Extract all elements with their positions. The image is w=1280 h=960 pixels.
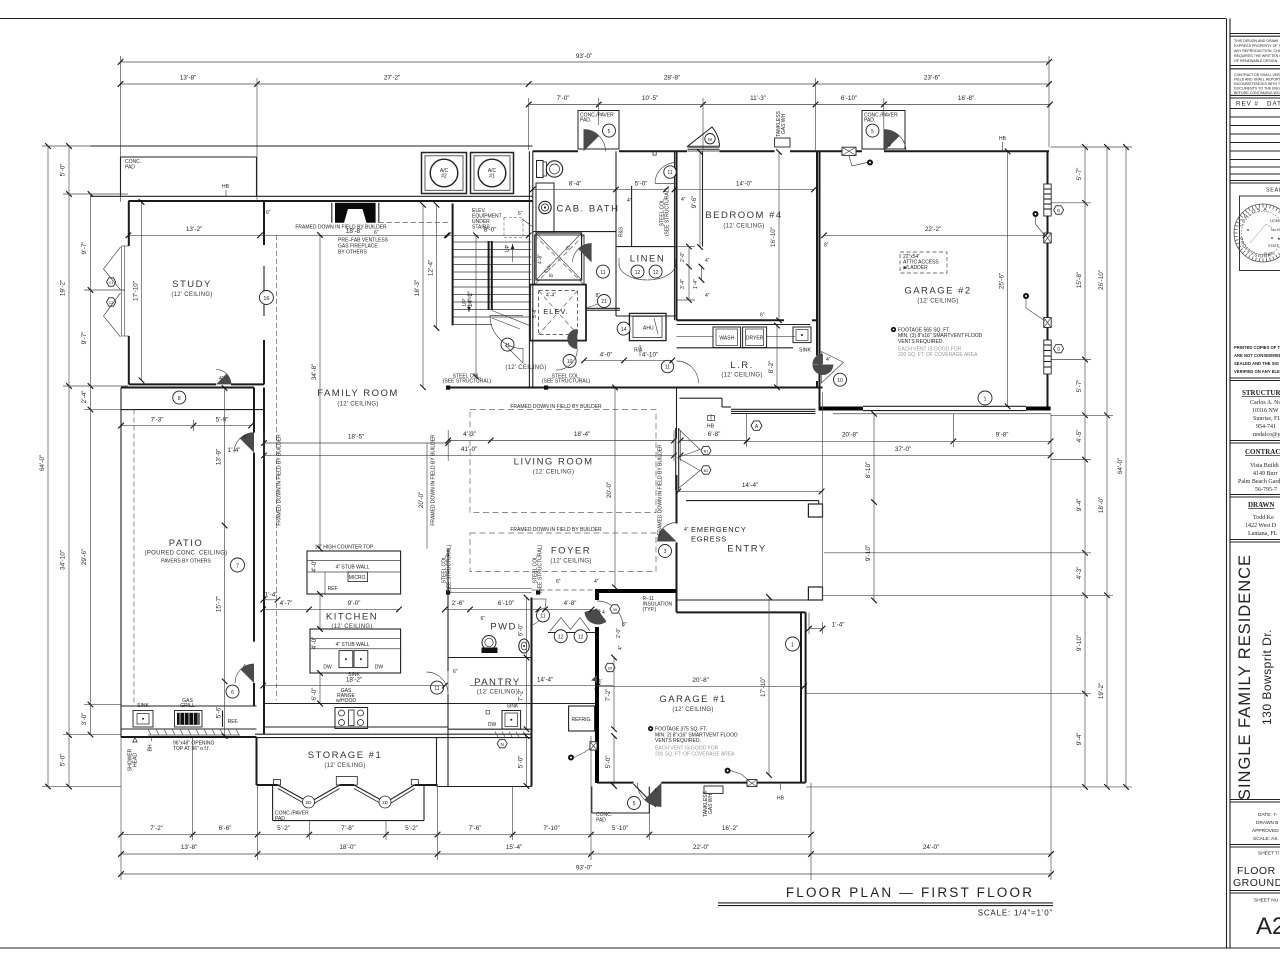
svg-text:PWD: PWD	[490, 622, 517, 633]
joint wall between wings	[529, 151, 532, 201]
96x48 opening note	[173, 741, 215, 753]
svg-text:18’-2”: 18’-2”	[346, 676, 362, 683]
svg-text:8’-10”: 8’-10”	[865, 462, 872, 478]
wc fixtures dims	[619, 187, 686, 237]
svg-text:10’-5”: 10’-5”	[642, 95, 658, 102]
svg-text:DW: DW	[323, 665, 332, 671]
left dim col 3	[81, 194, 91, 735]
vertical dims patio 13'-9" 15'-7" 5'-6"	[216, 388, 241, 736]
svg-text:6”: 6”	[518, 211, 523, 217]
svg-text:VERIFIED ON ANY ELE: VERIFIED ON ANY ELE	[1234, 369, 1280, 374]
svg-text:6”: 6”	[374, 230, 379, 236]
garage1 south wall	[597, 782, 806, 784]
svg-text:1: 1	[984, 396, 987, 402]
svg-text:9’-10”: 9’-10”	[1076, 635, 1083, 651]
svg-text:3’-0”: 3’-0”	[81, 713, 88, 726]
svg-text:HB: HB	[777, 796, 785, 802]
storage bay window 2	[354, 785, 415, 805]
svg-text:10: 10	[567, 359, 573, 365]
svg-text:GAS WH: GAS WH	[708, 793, 714, 814]
svg-text:SCALE: 1/4”=1’0”: SCALE: 1/4”=1’0”	[978, 909, 1053, 918]
svg-text:4’-10”: 4’-10”	[642, 351, 658, 358]
svg-text:2’-4”: 2’-4”	[81, 391, 88, 404]
svg-text:14: 14	[621, 327, 627, 333]
window hexagon C2	[107, 298, 116, 306]
garage1 east wall (double)	[801, 612, 806, 782]
sheet top border line	[0, 18, 1226, 20]
svg-text:1422 West D: 1422 West D	[1245, 523, 1277, 529]
right dim col 64'-0"	[1117, 147, 1126, 787]
svg-text:N: N	[501, 742, 504, 747]
storage front conc paver pad	[273, 785, 424, 822]
svg-text:CONTRAC: CONTRAC	[1245, 448, 1280, 456]
room label GARAGE #2	[904, 286, 971, 305]
svg-text:17’-10”: 17’-10”	[760, 677, 767, 697]
bottom dim row 1	[121, 825, 811, 835]
svg-text:7’-2”: 7’-2”	[518, 689, 525, 702]
svg-text:(TYP.): (TYP.)	[643, 607, 657, 613]
svg-text:11: 11	[665, 365, 670, 371]
svg-text:5’-9”: 5’-9”	[216, 416, 229, 423]
svg-text:FRAMED DOWN IN FIELD BY BUILDE: FRAMED DOWN IN FIELD BY BUILDER	[510, 404, 602, 410]
svg-text:18’-8”: 18’-8”	[346, 228, 362, 235]
svg-text:4”: 4”	[684, 527, 689, 533]
svg-text:w/HOOD: w/HOOD	[336, 698, 356, 704]
svg-text:L.R.: L.R.	[730, 360, 753, 371]
svg-text:4” STUB WALL: 4” STUB WALL	[336, 565, 370, 571]
svg-text:19’-2”: 19’-2”	[60, 280, 67, 296]
svg-text:HB: HB	[222, 184, 230, 190]
storage north wall (double)	[255, 734, 532, 737]
svg-text:BH: BH	[148, 744, 154, 751]
left wing top wall	[128, 200, 532, 202]
svg-text:(12’ CEILING): (12’ CEILING)	[171, 292, 212, 298]
svg-text:4: 4	[602, 610, 605, 616]
dim row cab bath / wc / bedroom4	[533, 180, 814, 189]
svg-text:SINK: SINK	[799, 348, 811, 354]
svg-text:EMERGENCY: EMERGENCY	[691, 525, 747, 534]
svg-text:(12’ CEILING): (12’ CEILING)	[672, 707, 713, 713]
vertical dim 9'-6" bedroom4	[691, 152, 700, 247]
disclaimer paragraph 2	[1234, 73, 1280, 95]
svg-text:4’-3”: 4’-3”	[463, 431, 476, 438]
vertical dim 12'-4" stairs	[428, 205, 437, 328]
svg-text:4”: 4”	[219, 376, 224, 382]
svg-text:BY OTHERS: BY OTHERS	[338, 250, 367, 256]
svg-text:No 49: No 49	[1271, 228, 1280, 232]
svg-text:11: 11	[540, 614, 545, 620]
svg-text:AHU: AHU	[643, 326, 654, 332]
window tag D	[1054, 206, 1064, 214]
window tag D	[1054, 344, 1064, 352]
svg-text:6”: 6”	[760, 313, 765, 319]
L.R. south wall	[677, 387, 823, 389]
circled tag 16 (study)	[259, 291, 273, 305]
bay window 1 tag 2D	[303, 796, 315, 808]
svg-text:7’-2”: 7’-2”	[605, 689, 612, 702]
seal box	[1240, 196, 1280, 271]
entry north wall	[686, 500, 819, 502]
room label FOYER	[550, 546, 591, 565]
svg-text:29’-6”: 29’-6”	[81, 549, 88, 565]
entry double leaf doors B1 B2	[676, 428, 711, 490]
foyer south door 09	[591, 663, 615, 683]
svg-text:13’-9”: 13’-9”	[216, 449, 223, 465]
storage east wall	[531, 738, 533, 787]
vertical dim 20'-0" living	[606, 388, 615, 588]
svg-text:8’-2”: 8’-2”	[768, 361, 775, 374]
svg-text:22’-0”: 22’-0”	[693, 844, 709, 851]
vertical dim 20'-0" kitchen line	[418, 443, 427, 549]
garage2 east wall with windows	[1047, 151, 1049, 410]
svg-text:17’-10”: 17’-10”	[133, 281, 140, 301]
svg-text:(12’ CEILING): (12’ CEILING)	[917, 299, 958, 305]
svg-text:4’-0”: 4’-0”	[311, 560, 318, 573]
svg-text:4”: 4”	[618, 645, 624, 650]
svg-text:A2: A2	[1256, 913, 1280, 940]
svg-text:5: 5	[633, 801, 636, 807]
svg-text:7’-0”: 7’-0”	[557, 95, 570, 102]
pantry door	[426, 672, 448, 694]
svg-text:D: D	[1057, 208, 1060, 213]
kitchen island 2 (lower with sink)	[310, 629, 401, 678]
svg-text:nodalco@y: nodalco@y	[1253, 432, 1280, 438]
svg-text:CONTRACTOR SHALL VERI: CONTRACTOR SHALL VERI	[1234, 73, 1280, 77]
elevator tags	[490, 293, 620, 371]
svg-text:5’-0”: 5’-0”	[635, 180, 648, 187]
svg-text:200 SQ. FT. OF COVERAGE AREA: 200 SQ. FT. OF COVERAGE AREA	[898, 352, 978, 358]
linen tags	[597, 265, 663, 278]
svg-text:5’-7”: 5’-7”	[1076, 380, 1083, 393]
kitchen east wall	[447, 549, 449, 672]
elevator car	[530, 285, 586, 341]
svg-text:6’-10”: 6’-10”	[498, 600, 514, 607]
svg-text:(12’ CEILING): (12’ CEILING)	[533, 470, 574, 476]
svg-text:DATE: 7-: DATE: 7-	[1258, 812, 1278, 818]
garage2 south dim rows	[681, 414, 1051, 455]
svg-text:6’-0”: 6’-0”	[311, 688, 318, 701]
svg-text:D: D	[1057, 347, 1060, 352]
svg-text:ENTRY: ENTRY	[727, 544, 767, 555]
dim row ahu 4'-0" 4'-10"	[584, 351, 672, 360]
svg-text:4’: 4’	[598, 679, 602, 685]
svg-text:SCALE: AS: SCALE: AS	[1253, 836, 1278, 842]
svg-text:23’-6”: 23’-6”	[924, 75, 940, 82]
svg-text:16” HIGH COUNTER TOP: 16” HIGH COUNTER TOP	[315, 545, 374, 551]
svg-text:SHEET TI: SHEET TI	[1258, 851, 1279, 857]
entry west wall	[676, 388, 678, 592]
svg-text:20’-8”: 20’-8”	[842, 432, 858, 439]
svg-text:Carlos A. No: Carlos A. No	[1250, 400, 1280, 406]
bedroom4 entry door M (striped)	[688, 127, 720, 151]
pantry sink and dw	[486, 704, 526, 738]
svg-text:■/LADDER: ■/LADDER	[903, 265, 928, 271]
svg-text:8’-0”: 8’-0”	[484, 227, 497, 234]
svg-text:3: 3	[664, 549, 667, 555]
L.R. laundry counter	[677, 313, 812, 354]
svg-text:4: 4	[598, 609, 601, 615]
svg-text:11: 11	[667, 170, 672, 176]
svg-text:1’-4”: 1’-4”	[265, 592, 278, 599]
svg-text:HEAD: HEAD	[133, 753, 139, 767]
linen south shelf	[616, 315, 677, 317]
linen north wall	[616, 246, 677, 248]
svg-text:(SEE STRUCTURAL): (SEE STRUCTURAL)	[447, 544, 453, 593]
svg-text:5’-0”: 5’-0”	[60, 754, 67, 767]
svg-text:8’-4”: 8’-4”	[569, 180, 582, 187]
svg-text:4”: 4”	[594, 579, 599, 585]
svg-text:3’-4”: 3’-4”	[680, 279, 686, 289]
dim row 20'-8" garage1	[598, 677, 805, 686]
hose bib HB top-left	[222, 184, 230, 196]
study/family divider wall	[263, 201, 265, 384]
dim row study exit 7'-3" 5'-9"	[121, 416, 251, 431]
svg-text:6”: 6”	[481, 616, 486, 622]
svg-text:PAD: PAD	[275, 816, 285, 822]
svg-text:14’-4”: 14’-4”	[742, 482, 758, 489]
fireplace (black)	[332, 203, 379, 223]
svg-text:4’-5”: 4’-5”	[1076, 430, 1083, 443]
svg-text:954-741: 954-741	[1256, 424, 1276, 430]
bottom extension lines	[121, 414, 1051, 880]
storage south wall with bay windows	[257, 777, 532, 787]
svg-text:OF RENEWABLE DESIGN.: OF RENEWABLE DESIGN.	[1234, 59, 1278, 63]
storage divider wall	[436, 738, 438, 787]
svg-text:7’-2”: 7’-2”	[150, 825, 163, 832]
svg-text:Sunrise, FL: Sunrise, FL	[1253, 416, 1280, 422]
svg-text:6’-10”: 6’-10”	[841, 95, 857, 102]
coat closet zigzag	[548, 618, 595, 643]
svg-text:4: 4	[243, 664, 246, 670]
room label BEDROOM #4	[705, 210, 782, 230]
kitchen west wall	[263, 388, 265, 735]
tiny labels near closet/pwd	[453, 579, 627, 685]
svg-text:REF.: REF.	[228, 719, 239, 725]
svg-text:GAS WH: GAS WH	[781, 113, 787, 134]
left extension lines	[42, 146, 532, 787]
svg-text:REFRIG.: REFRIG.	[571, 717, 591, 723]
svg-text:13’-8”: 13’-8”	[180, 75, 196, 82]
svg-text:12’-4”: 12’-4”	[428, 260, 435, 276]
svg-text:APPROVED: APPROVED	[1252, 828, 1279, 834]
svg-text:6”: 6”	[556, 579, 561, 585]
patio top wall	[121, 388, 264, 410]
svg-text:(12’ CEILING): (12’ CEILING)	[477, 690, 518, 696]
dim row pantry 14'-4"	[470, 676, 613, 685]
svg-text:PAD: PAD	[125, 165, 135, 171]
svg-text:2’-0”: 2’-0”	[680, 252, 686, 262]
svg-text:KITCHEN: KITCHEN	[326, 612, 378, 623]
svg-text:4: 4	[654, 788, 657, 794]
svg-text:8: 8	[178, 396, 181, 402]
cab bath east wall	[615, 151, 617, 246]
drawn by block	[1245, 501, 1278, 537]
entry porch columns	[677, 392, 823, 600]
living room tray ceiling dashed	[470, 404, 656, 513]
garage1 west wall (dark)	[595, 589, 599, 783]
dim row 14'-4" entry	[678, 482, 821, 491]
garage #2 top wall	[819, 150, 1049, 152]
porch HB	[707, 414, 715, 430]
garage1 side door stoop pad	[592, 787, 650, 824]
cab bath south wall	[533, 231, 616, 233]
svg-text:7’-6”: 7’-6”	[469, 825, 482, 832]
cab bath toilet	[537, 161, 563, 178]
living room dim rows	[264, 431, 747, 456]
svg-text:41’-0”: 41’-0”	[461, 446, 477, 453]
room label L.R.	[721, 360, 762, 379]
svg-text:2D: 2D	[382, 800, 389, 805]
room label LINEN	[630, 254, 665, 265]
right dim col 2	[1098, 147, 1107, 787]
svg-text:B1: B1	[704, 450, 709, 454]
svg-text:ARE NOT CONSIDERED: ARE NOT CONSIDERED	[1234, 353, 1280, 358]
cab bath entry door (dark wedge)	[578, 111, 619, 152]
svg-text:5’-2”: 5’-2”	[277, 825, 290, 832]
pwd sink	[519, 639, 529, 653]
svg-text:7’-8”: 7’-8”	[341, 825, 354, 832]
svg-text:200 SQ. FT. OF COVERAGE AREA: 200 SQ. FT. OF COVERAGE AREA	[655, 751, 735, 757]
svg-text:FAMILY ROOM: FAMILY ROOM	[317, 388, 399, 399]
svg-text:8”: 8”	[824, 243, 829, 249]
svg-text:PAVERS BY OTHERS: PAVERS BY OTHERS	[161, 559, 211, 565]
svg-text:4149 Burr: 4149 Burr	[1253, 471, 1278, 477]
conc pad strip along top-left	[91, 146, 533, 196]
garage1 north wall	[677, 591, 806, 612]
svg-text:STORAGE #1: STORAGE #1	[308, 750, 383, 761]
svg-text:09: 09	[608, 667, 612, 671]
svg-text:Vista Buildi: Vista Buildi	[1250, 463, 1279, 469]
svg-text:(SEE STRUCTURAL): (SEE STRUCTURAL)	[538, 544, 544, 593]
bottom dim row 2	[121, 844, 1051, 854]
svg-text:9’-7”: 9’-7”	[81, 332, 88, 345]
vertical dim 17'-10" garage1	[760, 597, 769, 775]
svg-text:4” STUB WALL: 4” STUB WALL	[336, 642, 370, 648]
svg-text:WASH: WASH	[719, 336, 734, 342]
AHU unit	[617, 313, 666, 356]
title block left border (double vertical)	[1226, 19, 1228, 949]
svg-text:FRAMED DOWN IN FIELD BY BUILDE: FRAMED DOWN IN FIELD BY BUILDER	[658, 444, 664, 536]
room label LIVING ROOM	[514, 457, 594, 476]
garage2 top-left window vent	[842, 147, 873, 166]
svg-text:130 Bowsprit Dr.: 130 Bowsprit Dr.	[1260, 629, 1274, 725]
study door 8 (dark wedge)	[173, 369, 231, 404]
patio lower door 6 (dark wedge)	[226, 664, 254, 698]
svg-text:8”: 8”	[596, 293, 601, 299]
svg-text:UP: UP	[505, 244, 511, 252]
foyer-garage door (dark wedge)	[585, 601, 624, 627]
svg-text:24’-0”: 24’-0”	[923, 844, 939, 851]
svg-text:STATE: STATE	[1268, 244, 1280, 248]
circled tag 7 (patio)	[231, 558, 245, 572]
pwd south wall	[448, 657, 532, 659]
svg-text:16’-10”: 16’-10”	[770, 227, 777, 247]
svg-text:16’-2”: 16’-2”	[722, 825, 738, 832]
wc door arc	[653, 152, 676, 184]
L.R. north wall (bedroom divider)	[677, 319, 818, 321]
svg-text:26’-10”: 26’-10”	[1098, 270, 1105, 290]
svg-text:15’-7”: 15’-7”	[216, 596, 223, 612]
room label PANTRY	[474, 677, 521, 696]
svg-text:(SEE STRUCTURAL): (SEE STRUCTURAL)	[443, 379, 492, 385]
svg-text:SEAL: SEAL	[1266, 188, 1280, 194]
patio counter with sink grill ref	[121, 698, 257, 729]
svg-text:4”: 4”	[705, 258, 710, 264]
svg-text:20’-8”: 20’-8”	[692, 677, 708, 684]
svg-text:1’-4”: 1’-4”	[693, 279, 699, 289]
svg-text:4”: 4”	[681, 197, 686, 203]
svg-text:CAB. BATH: CAB. BATH	[557, 204, 620, 215]
family room dashed boundary	[276, 223, 663, 701]
svg-text:6’-0”: 6’-0”	[518, 624, 525, 637]
svg-text:7’-10”: 7’-10”	[543, 825, 559, 832]
svg-text:4’-8”: 4’-8”	[538, 254, 544, 264]
stairs	[453, 204, 532, 330]
svg-text:4’-0”: 4’-0”	[600, 351, 613, 358]
svg-text:SINK: SINK	[137, 703, 149, 709]
svg-text:22’-2”: 22’-2”	[925, 226, 941, 233]
porch wall jog	[680, 398, 732, 407]
svg-text:5’-7”: 5’-7”	[1076, 168, 1083, 181]
svg-text:9’-10”: 9’-10”	[865, 545, 872, 561]
garage2 attic access	[900, 252, 947, 273]
svg-text:Palm Beach Garde: Palm Beach Garde	[1238, 479, 1280, 485]
circle N tag	[497, 739, 507, 747]
garage1 HB	[777, 784, 785, 802]
bedroom4 closet wall	[702, 151, 704, 246]
svg-text:16: 16	[263, 296, 269, 302]
elev equipment note	[472, 208, 533, 238]
svg-text:4’-0”: 4’-0”	[311, 637, 318, 650]
svg-text:R&S: R&S	[619, 226, 625, 237]
svg-text:INCONSISTENCIES WITH T: INCONSISTENCIES WITH T	[1234, 82, 1280, 86]
vertical dim 25'-6" garage2	[999, 151, 1008, 406]
revision table rows	[1230, 116, 1280, 118]
garage2 flood vent 1	[1033, 211, 1052, 243]
svg-text:#1: #1	[489, 173, 495, 179]
vertical dim 34'-8" family	[311, 235, 320, 549]
svg-text:12: 12	[558, 634, 564, 640]
svg-text:(12’ CEILING): (12’ CEILING)	[723, 224, 764, 230]
svg-text:FOYER: FOYER	[551, 546, 591, 557]
svg-text:6’-6”: 6’-6”	[219, 825, 232, 832]
svg-text:PATIO: PATIO	[169, 538, 204, 549]
svg-text:(12’ CEILING): (12’ CEILING)	[337, 402, 378, 408]
svg-text:STUDY: STUDY	[172, 279, 212, 290]
svg-text:18’-5”: 18’-5”	[348, 433, 364, 440]
dim 1'-4" garage1 ne	[809, 612, 844, 634]
svg-text:4’-3”: 4’-3”	[1076, 567, 1083, 580]
cab bath shower with X	[536, 233, 592, 280]
svg-text:FRAMED DOWN IN FIELD BY BUILDE: FRAMED DOWN IN FIELD BY BUILDER	[431, 434, 437, 526]
svg-text:93’-0”: 93’-0”	[576, 53, 592, 60]
vertical dim 17'-10" study	[133, 202, 142, 380]
svg-text:9’-7”: 9’-7”	[81, 242, 88, 255]
svg-text:PAD.: PAD.	[864, 118, 875, 124]
svg-text:9’-0”: 9’-0”	[348, 600, 361, 607]
bottom dim row 93'-0"	[121, 865, 1051, 875]
storage west wall	[256, 737, 258, 785]
title block horizontal rules	[1230, 33, 1280, 35]
dim row 18'-5" left end ticks	[264, 430, 681, 461]
garage1 footage note	[648, 726, 738, 757]
dim row pwd 2'-6" 6'-10" 4'-8"	[445, 600, 592, 609]
svg-text:4’-4”: 4’-4”	[546, 293, 556, 299]
svg-text:(12’ CEILING): (12’ CEILING)	[721, 373, 762, 379]
svg-text:10316 NW: 10316 NW	[1252, 408, 1279, 414]
disclaimer paragraph 1	[1234, 39, 1280, 63]
svg-text:9’-4”: 9’-4”	[1076, 733, 1083, 746]
